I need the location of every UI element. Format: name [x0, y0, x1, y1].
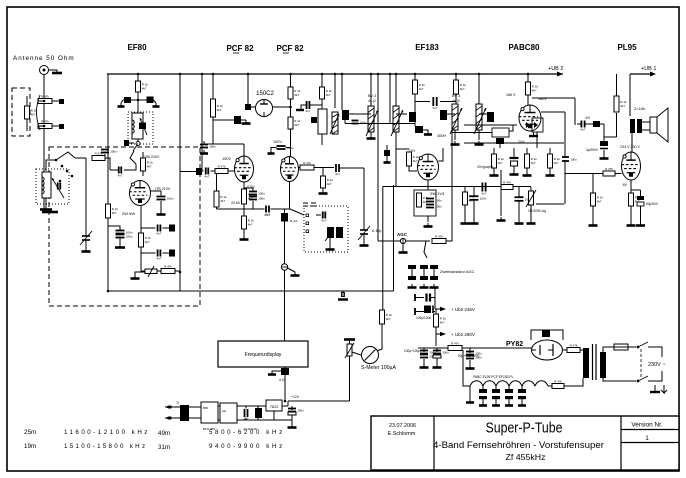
capacitor C3: [117, 167, 122, 178]
wire: [252, 201, 254, 209]
capacitor BV2 right: [409, 112, 416, 122]
wire detector input: [464, 124, 517, 126]
junction rail: [377, 73, 380, 76]
svg-text:4n7: 4n7: [117, 174, 122, 178]
wire: [414, 94, 416, 102]
ground C41: [636, 222, 645, 226]
wire: [334, 74, 336, 108]
resistor R31: [501, 180, 513, 189]
capacitor C6: [156, 225, 161, 236]
resistor R42: [552, 379, 564, 388]
svg-text:100n: 100n: [480, 196, 487, 200]
svg-text:6..60p: 6..60p: [372, 229, 382, 233]
capacitor heater C53 plate: [518, 396, 526, 399]
capacitor C33: [496, 138, 504, 144]
coil L1: [132, 113, 143, 139]
svg-text:4x-(2: 4x-(2: [368, 99, 376, 103]
resistor R1: [38, 94, 52, 103]
potentiometer S-meter: [345, 343, 354, 358]
svg-text:4k7: 4k7: [531, 161, 536, 165]
wire: [341, 74, 343, 110]
wire: [526, 168, 528, 172]
wire: [322, 188, 324, 190]
svg-text:4n7: 4n7: [204, 175, 209, 179]
plug jack: [338, 291, 348, 300]
resistor R26: [526, 82, 539, 95]
wire switch: [130, 151, 136, 164]
arrow +UB1: [650, 72, 656, 77]
ground C26b: [384, 159, 391, 163]
capacitor C29a: [408, 265, 416, 269]
capacitor C38: [562, 157, 577, 161]
wire: [495, 399, 497, 402]
svg-text:4k7: 4k7: [147, 165, 152, 169]
wire: [85, 158, 87, 236]
wire vertical feed: [107, 74, 109, 204]
wire cathode column: [107, 218, 109, 291]
contact blob: [124, 140, 129, 146]
svg-text:B_6A: B_6A: [290, 219, 297, 223]
wire: [631, 133, 633, 152]
ground pot: [527, 220, 536, 224]
svg-text:4n7: 4n7: [481, 192, 486, 196]
junction rail: [321, 73, 324, 76]
wire: [52, 125, 59, 127]
transformer out sec: [637, 119, 642, 133]
coil L4: [332, 112, 338, 134]
wire: [563, 349, 567, 351]
ground L2 bar2: [42, 211, 58, 214]
svg-text:19m: 19m: [24, 443, 36, 450]
svg-text:9400-9900 kHz: 9400-9900 kHz: [209, 443, 285, 450]
resistor R24: [417, 193, 430, 207]
resistor R29: [525, 154, 538, 168]
resistor R15a: [242, 189, 255, 204]
svg-text:47n/graphit: 47n/graphit: [477, 165, 493, 169]
wire: [549, 168, 551, 172]
resistor R5: [141, 158, 154, 171]
resistor R12: [288, 117, 301, 129]
svg-text:4k7: 4k7: [326, 93, 331, 97]
wire: [493, 168, 495, 172]
connector J1: [281, 264, 287, 270]
wire: [202, 170, 204, 172]
resistor R8: [161, 264, 175, 273]
svg-text:+ Ub2 245V: + Ub2 245V: [451, 307, 475, 312]
svg-text:4n7: 4n7: [321, 219, 326, 223]
tube V3 EF183: [417, 154, 438, 180]
capacitor heater C53: [518, 389, 526, 393]
coil BV3 secondary: [476, 104, 482, 130]
wire: [521, 386, 523, 389]
capacitor heater C52: [505, 389, 513, 393]
wire: [452, 132, 492, 134]
potentiometer volume: [526, 190, 536, 207]
resistor R4: [136, 81, 149, 92]
diode box V4: [532, 118, 543, 132]
svg-text:(TB 210V: (TB 210V: [155, 187, 171, 191]
svg-text:196 210V: 196 210V: [144, 155, 160, 159]
wire: [310, 104, 323, 106]
wire: [135, 272, 145, 275]
ground C36: [470, 220, 479, 224]
elco C47 plate: [433, 355, 441, 358]
svg-text:20.6V: 20.6V: [231, 201, 241, 205]
wire switch AGC: [424, 241, 427, 258]
wire: [482, 386, 484, 389]
coil L3 box: [318, 109, 327, 134]
wire: [478, 130, 480, 140]
ground C25: [424, 131, 432, 135]
wire: [290, 209, 304, 215]
wire: [137, 92, 139, 112]
wire: [603, 347, 612, 352]
wire: [423, 348, 425, 352]
wire screen line: [345, 123, 415, 125]
tube V6 PY82: [532, 340, 563, 360]
svg-text:4n7: 4n7: [432, 106, 437, 110]
svg-text:25m: 25m: [24, 429, 36, 436]
wire: [142, 152, 144, 158]
wire: [577, 123, 581, 125]
wire: [216, 174, 218, 192]
resistor R9: [92, 151, 105, 160]
wire: [46, 160, 56, 171]
wire: [533, 132, 535, 136]
wire: [175, 270, 180, 272]
wire: [243, 229, 245, 236]
wire: [329, 238, 331, 246]
wire: [137, 139, 139, 141]
svg-text:100n: 100n: [167, 196, 174, 200]
svg-text:100n: 100n: [435, 204, 442, 208]
wire: [508, 386, 510, 389]
capacitor C24: [432, 97, 437, 110]
wire: [290, 99, 292, 117]
ground BV2a: [367, 135, 376, 139]
wire: [642, 121, 650, 123]
wire: [585, 348, 587, 350]
capacitor C36: [470, 196, 487, 200]
title block version line 2: [621, 442, 679, 444]
svg-text:31m: 31m: [158, 444, 170, 451]
ground C31: [430, 284, 439, 288]
wire: [121, 100, 123, 103]
capacitor C4: [116, 230, 133, 234]
ground C29: [408, 284, 417, 288]
wire: [349, 356, 351, 401]
ground heater C51: [492, 402, 500, 406]
svg-text:Version Nr.: Version Nr.: [631, 422, 662, 429]
wire: [415, 101, 430, 103]
wire: [463, 350, 470, 386]
capacitor C15b: [249, 196, 265, 200]
wire: [243, 182, 245, 189]
wire: [105, 158, 110, 170]
wire: [518, 201, 520, 220]
wire switch arm: [56, 152, 75, 160]
wire: [389, 74, 391, 124]
capacitor C5: [116, 234, 133, 238]
svg-text:B80: B80: [203, 406, 209, 410]
wire: [171, 417, 180, 419]
svg-text:4k7: 4k7: [145, 240, 150, 244]
tuning arrow L1: [140, 118, 147, 135]
wire AF line upper: [383, 186, 531, 188]
resistor R25: [432, 234, 446, 243]
wire: [603, 150, 605, 155]
coil BV2 primary: [368, 106, 374, 132]
svg-text:PCF 82: PCF 82: [276, 44, 304, 53]
wire: [423, 269, 425, 276]
svg-text:100V: 100V: [273, 140, 282, 144]
capacitor C30a: [420, 265, 428, 269]
ground R37: [627, 222, 636, 226]
wire: [435, 334, 437, 346]
svg-text:PABC EL95 PCF EF183 PL: PABC EL95 PCF EF183 PL: [473, 375, 514, 379]
wire: [284, 270, 286, 341]
wire: [38, 125, 44, 127]
dashed line osc top: [303, 203, 316, 206]
wire: [508, 399, 510, 402]
wire: [124, 164, 136, 170]
wire: [436, 348, 438, 352]
wire: [406, 240, 430, 242]
svg-text:100n: 100n: [297, 408, 304, 412]
wire: [604, 136, 617, 138]
svg-text:4k7: 4k7: [532, 89, 537, 93]
svg-text:100n: 100n: [435, 198, 442, 202]
ground trimmer: [82, 248, 91, 252]
capacitor C19: [311, 117, 317, 123]
switch contact dot: [66, 170, 69, 173]
elco C63: [288, 408, 304, 412]
capacitor C44: [415, 306, 435, 316]
meter M1: [362, 347, 379, 364]
wire: [321, 99, 323, 109]
svg-text:+UB 1: +UB 1: [641, 66, 656, 72]
ground osc: [326, 246, 335, 250]
wire: [434, 298, 436, 310]
wire: [218, 405, 220, 407]
wire: [314, 167, 334, 169]
ground C47: [433, 364, 442, 368]
wire: [349, 113, 371, 115]
svg-text:150C2: 150C2: [256, 91, 274, 97]
wire: [370, 132, 372, 135]
svg-text:1Vs: 1Vs: [518, 140, 525, 144]
wire: [301, 105, 307, 109]
ground C41g: [600, 155, 609, 159]
ground L2: [40, 206, 52, 210]
wire: [414, 74, 416, 80]
wire: [423, 130, 428, 132]
svg-text:5800-6200 kHz: 5800-6200 kHz: [209, 429, 285, 436]
wire: [247, 74, 249, 104]
wire: [218, 419, 220, 421]
wire: [473, 200, 475, 220]
wire AGC bus: [377, 74, 379, 241]
capacitor C15a: [249, 191, 265, 195]
wire: [189, 406, 201, 408]
transformer module: [180, 405, 189, 421]
wire: [110, 169, 118, 171]
wire: [286, 147, 291, 149]
arrow Ub1 head: [440, 332, 446, 336]
wire B+ rail UB1: [630, 73, 650, 75]
arrow Ub2 head: [440, 307, 446, 311]
wire: [119, 238, 121, 244]
svg-text:100n: 100n: [258, 191, 265, 195]
junction rail: [370, 73, 373, 76]
tube V4 PABC80: [519, 105, 541, 131]
svg-text:+12V: +12V: [291, 395, 300, 399]
svg-text:R 47k: R 47k: [218, 164, 226, 168]
wire: [370, 74, 372, 106]
capacitor C61: [243, 409, 248, 421]
tuning arrow BV2a: [366, 110, 378, 136]
elco C47: [433, 350, 449, 354]
capacitor heater C51 plate: [492, 396, 500, 399]
wire B+ rail UB2: [107, 73, 563, 75]
resistor R3: [25, 106, 38, 119]
ground V2a cathode: [240, 236, 249, 240]
wire: [451, 118, 453, 222]
wire: [418, 347, 532, 349]
ground C48: [466, 365, 475, 369]
wire: [469, 360, 471, 365]
junction rail: [201, 73, 204, 76]
svg-text:Zweitransistor AGC: Zweitransistor AGC: [440, 269, 475, 274]
wire: [402, 244, 404, 249]
svg-text:100n: 100n: [570, 157, 577, 161]
wire: [521, 399, 523, 402]
ground C18: [268, 150, 275, 154]
ground C34: [510, 171, 519, 175]
wire: [321, 134, 323, 145]
svg-text:d 17: d 17: [264, 213, 270, 217]
junction: [55, 159, 58, 162]
elco C48: [466, 351, 482, 355]
wire screen feed: [179, 74, 181, 291]
svg-text:100n: 100n: [126, 234, 133, 238]
wire: [141, 252, 156, 254]
resistor R7: [139, 233, 152, 247]
ground heater C50: [479, 402, 487, 406]
wire: [243, 204, 245, 216]
svg-text:2W 6W: 2W 6W: [122, 211, 135, 216]
wire: [228, 170, 235, 172]
switch arc antenna: [37, 95, 41, 130]
potentiometer P1: [145, 266, 157, 277]
wire: [427, 216, 429, 222]
capacitor C31b: [430, 276, 438, 280]
ground C2: [153, 103, 160, 107]
capacitor C28: [426, 204, 442, 208]
junction: [284, 400, 287, 403]
coil L2: [42, 172, 51, 198]
wire: [378, 240, 400, 242]
tube V1 EF80: [129, 181, 150, 206]
svg-text:4k7: 4k7: [112, 211, 117, 215]
svg-text:7812: 7812: [270, 405, 278, 409]
wire: [469, 348, 471, 353]
resistor R19: [300, 161, 314, 170]
wire: [140, 247, 142, 266]
ground J2: [399, 249, 408, 253]
tuning arrow L4: [330, 114, 339, 134]
wire: [213, 119, 234, 121]
wire IF to grid: [395, 132, 397, 187]
heater chokes: [470, 381, 548, 386]
svg-text:4k7: 4k7: [294, 93, 299, 97]
resistor R40: [448, 341, 462, 350]
wire: [217, 208, 265, 210]
dashed box band switch: [49, 147, 200, 306]
elco C63 plate: [288, 412, 296, 415]
svg-text:+UB 2: +UB 2: [548, 66, 563, 72]
svg-text:8V: 8V: [623, 183, 628, 187]
coil BV2 secondary: [393, 106, 399, 132]
wire: [291, 406, 293, 410]
wire: [454, 130, 456, 140]
wire: [411, 269, 413, 276]
capacitor C14: [196, 168, 202, 175]
resistor R22: [413, 80, 426, 94]
svg-text:4k7: 4k7: [460, 87, 465, 91]
wire: [151, 191, 162, 196]
junction: [289, 106, 292, 109]
underline PCF82 b: [283, 52, 289, 54]
wire: [140, 206, 142, 234]
resistor R34: [603, 167, 615, 176]
terminal 150C2: [245, 104, 251, 110]
wire: [527, 74, 529, 82]
box det: [492, 128, 509, 137]
transformer secondary: [600, 352, 606, 378]
wire: [564, 112, 566, 157]
wire: [352, 352, 361, 355]
wire: [142, 171, 144, 176]
wire: [435, 308, 441, 310]
svg-text:PCF 82: PCF 82: [226, 44, 254, 53]
ground module: [288, 424, 297, 428]
ground R32: [461, 220, 470, 224]
nothing: [488, 73, 490, 75]
capacitor C18: [277, 146, 294, 150]
switch contact c: [306, 230, 309, 233]
svg-text:R 47k: R 47k: [164, 264, 172, 268]
wire: [434, 287, 436, 298]
wire: [299, 167, 301, 169]
capacitor C21: [321, 212, 326, 223]
capacitor C9: [101, 149, 117, 153]
svg-text:Frequenzdisplay: Frequenzdisplay: [245, 352, 282, 358]
wire: [435, 327, 437, 334]
title block outer: [371, 416, 679, 470]
junction rail: [334, 73, 337, 76]
wire: [284, 222, 286, 265]
svg-text:100n: 100n: [209, 144, 216, 148]
wire: [616, 113, 618, 137]
junction: [137, 99, 140, 102]
ground C60: [268, 371, 276, 375]
capacitor C26b: [384, 150, 390, 156]
svg-text:R 47k: R 47k: [41, 94, 49, 98]
wire: [38, 100, 44, 102]
svg-text:4k7: 4k7: [220, 199, 225, 203]
wire: [271, 208, 291, 210]
